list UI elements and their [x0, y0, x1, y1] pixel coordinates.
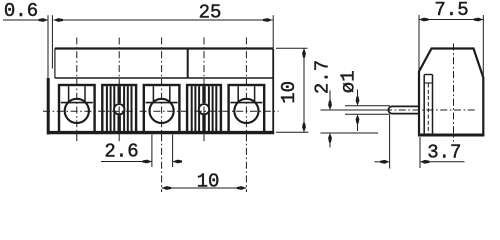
terminal cell 5 screw head circle — [234, 99, 258, 123]
extension line from body left for 3.7 — [419, 137, 421, 168]
terminal cell 1 screw cavity rect — [59, 85, 95, 132]
terminal cell 4 vent stripes — [191, 86, 193, 131]
reference line bottom for 2.7 — [321, 132, 379, 134]
svg-text:10: 10 — [278, 81, 300, 104]
terminal cell 2 center slot — [117, 86, 120, 103]
horizontal centerline front view — [43, 110, 279, 112]
terminal cell 3 screw head circle — [150, 99, 174, 123]
side body bottom edge thick — [418, 134, 484, 137]
svg-text:2.7: 2.7 — [312, 60, 334, 94]
extension line top right for 10 — [276, 47, 308, 49]
dimension 7.5 line with arrows — [419, 19, 483, 21]
terminal cell 1 inner walls — [68, 86, 70, 102]
vertical centerline cell 1 — [76, 38, 78, 143]
terminal cell 3 inner walls — [152, 86, 154, 102]
side view vertical centerline — [453, 44, 455, 142]
svg-text:2.6: 2.6 — [104, 141, 138, 163]
front body right edge — [272, 49, 274, 134]
extension line outer wall x=48 — [47, 15, 49, 78]
upper/lower housing boundary line — [55, 77, 273, 79]
svg-text:3.7: 3.7 — [427, 142, 461, 164]
dimension 10 vertical line with arrows — [303, 48, 305, 132]
vertical centerline cell 4 — [203, 38, 205, 143]
extension lines for 2.6 — [151, 135, 153, 168]
svg-text:7.5: 7.5 — [434, 0, 468, 21]
svg-text:0.6: 0.6 — [4, 0, 38, 22]
terminal cell 4 screw pilot circle — [199, 104, 209, 114]
terminal cell 4 striped body rect — [187, 85, 221, 132]
housing section divider — [187, 49, 189, 79]
vertical centerline cell 2 — [118, 38, 120, 143]
front body top edge — [55, 47, 273, 49]
front body bottom edge (thick) — [47, 131, 274, 134]
extension line side right for 7.5 — [482, 15, 484, 78]
terminal cell 2 screw pilot circle — [114, 104, 124, 114]
dimension diameter-1 arrows — [357, 90, 359, 97]
extension line right edge for 25 — [272, 15, 274, 48]
side body outline — [419, 49, 483, 136]
terminal cell 1 clamp chord line — [61, 102, 93, 104]
reference lines for diameter 1 — [345, 105, 390, 107]
pin centerline solid part — [321, 109, 386, 111]
solder pin — [388, 106, 419, 113]
terminal cell 5 inner walls — [237, 86, 239, 102]
extension line inner wall x=52.4 — [51, 15, 53, 68]
dimension 10 bottom line with arrows — [162, 187, 247, 189]
extension line from pin tip for 3.7 — [389, 115, 391, 169]
terminal cell 2 vent stripes — [106, 86, 108, 131]
terminal cell 2 striped body rect — [102, 85, 136, 132]
dimension 2.6 line with outside arrows — [101, 161, 152, 163]
terminal cell 3 clamp chord line — [146, 102, 178, 104]
terminal cell 4 center slot — [202, 86, 205, 103]
terminal cell 3 screw cavity rect — [144, 85, 180, 132]
svg-text:ø1: ø1 — [337, 70, 359, 93]
dimension 3.7 line with outside arrows — [375, 161, 381, 163]
upper housing left edge — [54, 49, 56, 79]
vertical centerline cell 3 — [161, 38, 163, 193]
terminal cell 5 clamp chord line — [230, 102, 262, 104]
terminal cell 5 screw cavity rect — [229, 85, 265, 132]
pin centerline dash-dot part — [385, 109, 478, 111]
svg-text:25: 25 — [199, 2, 222, 24]
lower housing left edge (thick) — [47, 78, 50, 135]
extension line bottom right for 10 — [276, 131, 309, 133]
svg-text:10: 10 — [197, 170, 220, 192]
dimension 2.7 arrows — [329, 91, 331, 101]
vertical centerline cell 5 — [245, 38, 247, 193]
dimension 0.6 line with arrows — [3, 19, 48, 21]
internal pin channel — [423, 75, 425, 134]
terminal cell 1 screw head circle — [65, 99, 89, 123]
extension line side left for 7.5 — [418, 15, 420, 70]
dimension 25 line with arrows — [54, 19, 273, 21]
